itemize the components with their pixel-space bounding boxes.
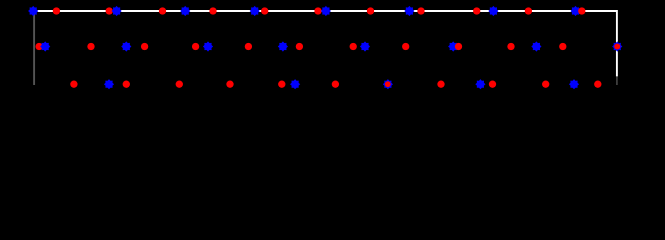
event marker: red point r2.15 xyxy=(455,43,462,50)
event marker: red point r1.13 xyxy=(417,7,424,14)
event marker: red point r2.10 xyxy=(296,43,303,50)
wire: gray vertical connector at right, lower segment to row3 xyxy=(616,76,618,85)
event marker: blue star r2.4 xyxy=(121,41,131,51)
event marker: small red point on top of blue star r2.end xyxy=(614,43,620,49)
event marker: red point r1.4 xyxy=(159,7,166,14)
wire: gray vertical connector at left from row1 to row3 xyxy=(33,11,35,85)
event marker: red point r1.6 xyxy=(209,7,216,14)
event marker: red point r2.3 xyxy=(87,43,94,50)
event marker: blue star r3.10 xyxy=(475,79,485,89)
event marker: blue star r3.2 xyxy=(104,79,114,89)
event marker: blue star r1.3 xyxy=(112,6,122,16)
event marker: blue star r1.15 xyxy=(488,6,498,16)
event marker: red point r3.3 xyxy=(123,81,130,88)
event marker: red point r3.5 xyxy=(226,81,233,88)
event marker: red point r2.6 xyxy=(192,43,199,50)
event marker: red point r3.9 xyxy=(437,81,444,88)
event marker: red point r2.16 xyxy=(507,43,514,50)
event marker: red point r1.9 xyxy=(314,7,321,14)
event marker: blue star r2.12 xyxy=(360,41,370,51)
event marker: blue star r3.13 xyxy=(569,79,579,89)
event marker: red point r1.8 xyxy=(261,7,268,14)
event marker: red point r1.11 xyxy=(367,7,374,14)
event marker: blue star r1.7 xyxy=(250,6,260,16)
event marker: blue star r1.19 xyxy=(28,6,38,16)
wire: white timeline along row1 turning down at right xyxy=(33,11,617,76)
event marker: red point r1.2 xyxy=(106,7,113,14)
event marker: red point r3.6 xyxy=(278,81,285,88)
event marker: blue star r2.end at right timeline bend xyxy=(612,41,622,51)
event marker: red point r3.4 xyxy=(176,81,183,88)
event marker: blue star r2.2 xyxy=(40,41,50,51)
event marker: red point r1.1 xyxy=(53,7,60,14)
event marker: red point r3.1 xyxy=(70,81,77,88)
event marker: red point r2.1 xyxy=(35,43,42,50)
event marker: red point r2.8 xyxy=(245,43,252,50)
event marker: blue star r2.7 xyxy=(203,41,213,51)
event marker: blue star r2.14 xyxy=(448,41,458,51)
event marker: blue star r3.mid overlapped pair xyxy=(383,79,393,89)
event marker: red point r3.8 xyxy=(332,81,339,88)
event marker: blue star r1.5 xyxy=(180,6,190,16)
event marker: red point r1.14 xyxy=(473,7,480,14)
event marker: red point r3.14 xyxy=(594,81,601,88)
event marker: small red point on top of blue star r3.mid xyxy=(385,81,391,87)
event marker: blue star r1.10 xyxy=(321,6,331,16)
event marker: red point r2.11 xyxy=(350,43,357,50)
event marker: red point r2.13 xyxy=(402,43,409,50)
event marker: red point r3.12 xyxy=(542,81,549,88)
event marker: blue star r1.17 xyxy=(570,6,580,16)
event marker: blue star r3.7 xyxy=(290,79,300,89)
event marker: red point r1.18 xyxy=(578,7,585,14)
event marker: blue star r2.9 xyxy=(278,41,288,51)
event marker: red point r1.16 xyxy=(525,7,532,14)
event marker: blue star r2.17 xyxy=(531,41,541,51)
event marker: red point r2.5 xyxy=(141,43,148,50)
event marker: red point r3.11 xyxy=(489,81,496,88)
event marker: blue star r1.12 xyxy=(404,6,414,16)
event marker: red point r2.18 xyxy=(559,43,566,50)
